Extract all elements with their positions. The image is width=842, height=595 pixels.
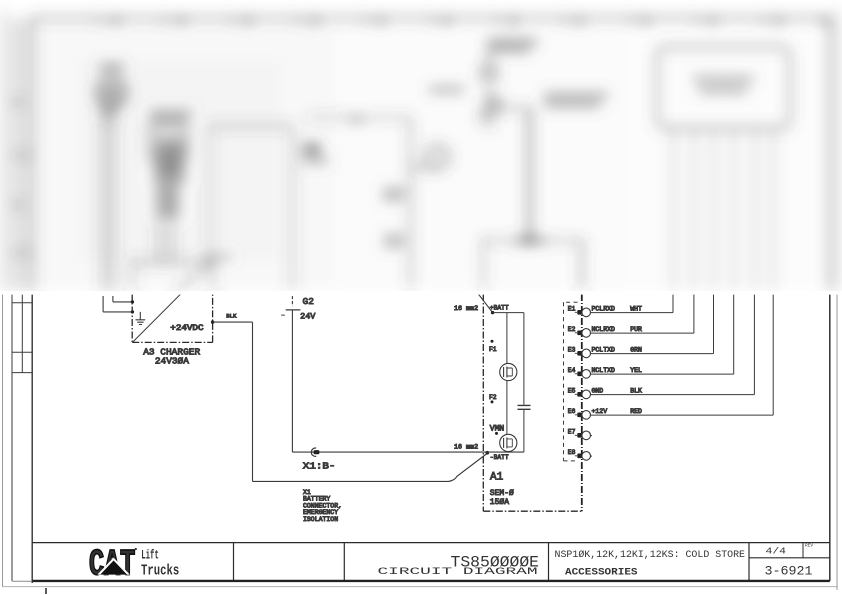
svg-text:NCLRXD: NCLRXD: [592, 326, 616, 333]
A3 charger input wire 1: [113, 296, 132, 302]
svg-text:RED: RED: [630, 408, 642, 415]
X1:B+ connector blob: [308, 145, 320, 154]
preview grey wash: [36, 24, 336, 290]
left margin column: [11, 294, 13, 581]
charger output junction: [211, 320, 214, 323]
rev cell divider: [802, 543, 804, 558]
svg-text:TS85ØØØØE: TS85ØØØØE: [451, 553, 540, 571]
switch blade blob: [479, 96, 501, 119]
node fuse top: [486, 92, 492, 98]
pin E6: [568, 294, 773, 419]
E connector dashed outline: [564, 302, 578, 461]
junction dot: [131, 300, 134, 303]
A1 box top edge (blurred part): [483, 240, 583, 242]
ground symbol: [139, 312, 141, 320]
left margin bottom grey: [12, 580, 32, 582]
svg-text:+12V: +12V: [592, 408, 608, 415]
label blob mid-left lower: [384, 237, 404, 245]
sheet frame top border: [32, 17, 830, 19]
svg-text:Trucks: Trucks: [141, 563, 179, 579]
A3 diagonal (blurred part): [176, 262, 213, 291]
six accessory wires down to E pins: [673, 128, 773, 291]
svg-text:PCLTXD: PCLTXD: [592, 347, 616, 354]
title block top border: [32, 542, 830, 544]
capacitor plates: [518, 405, 531, 409]
frame border right: [829, 294, 831, 581]
svg-text:16 mm2: 16 mm2: [454, 305, 478, 313]
frame border left: [31, 294, 33, 583]
svg-text:BLK: BLK: [226, 313, 237, 320]
shunt / meter circle mid-left: [427, 146, 449, 168]
A1 box left edge (blurred part): [482, 241, 484, 292]
A3 charger box: [132, 294, 212, 342]
A1 box left edge: [482, 294, 484, 511]
svg-text:PCLRXD: PCLRXD: [592, 306, 616, 313]
+BATT feed wire down to A1: [500, 107, 530, 109]
pin E2: [568, 294, 694, 337]
wire battery plus feed horizontal: [308, 117, 411, 119]
outer page edge lines (blurred): [2, 8, 4, 290]
wire battery plus feed vertical: [410, 118, 412, 289]
svg-text:15ØA: 15ØA: [490, 498, 509, 507]
svg-text:+24VDC: +24VDC: [170, 324, 203, 333]
svg-text:24V: 24V: [300, 312, 316, 322]
wires from key switch down to charger inputs: [104, 97, 114, 290]
wire shunt link: [411, 167, 438, 169]
A1 box right edge / E bus: [581, 294, 583, 511]
X1:B- connector: [311, 448, 316, 456]
pin E3: [568, 294, 714, 358]
svg-text:F2: F2: [489, 394, 497, 401]
svg-text:NSP1ØK,12K,12KI,12KS: COLD STO: NSP1ØK,12K,12KI,12KS: COLD STORE: [555, 549, 746, 561]
A3 diagonal: [133, 262, 213, 342]
F1 test point: [491, 340, 494, 343]
label blob mid: [350, 118, 363, 121]
rev/sheet horizontal divider: [749, 557, 830, 559]
left margin ticks: [12, 303, 32, 373]
accessory box top-right: [657, 47, 790, 128]
frame bottom border: [32, 580, 830, 582]
svg-text:GND: GND: [592, 388, 604, 395]
G2 battery plate: [286, 309, 301, 311]
node A1 +BATT junction: [525, 236, 533, 244]
G2 negative wire down and right (B- line): [292, 310, 524, 452]
svg-text:GRN: GRN: [630, 347, 642, 354]
svg-text:ISOLATION: ISOLATION: [303, 516, 338, 523]
svg-text:E3: E3: [568, 346, 576, 353]
A1 box bottom edge: [483, 510, 582, 512]
left margin column (blurred): [12, 18, 22, 290]
svg-text:24V3ØA: 24V3ØA: [155, 356, 189, 367]
frame grid ticks top: [99, 18, 764, 24]
outer page edge left: [2, 294, 4, 587]
G2 battery: boundary stub: [291, 296, 293, 306]
svg-text:Lift: Lift: [141, 547, 159, 562]
title block dividers: [234, 543, 750, 580]
MOSFET Q1: [500, 363, 517, 380]
svg-text:E8: E8: [568, 449, 576, 456]
+BATT internal wire: [493, 312, 524, 314]
svg-text:WHT: WHT: [630, 306, 642, 313]
key switch blob (top-left component): [98, 79, 126, 107]
svg-text:E2: E2: [568, 326, 576, 333]
svg-text:E4: E4: [568, 367, 576, 374]
wire fuse stem: [488, 47, 490, 66]
svg-text:16 mm2: 16 mm2: [454, 444, 478, 452]
svg-text:-BATT: -BATT: [490, 454, 509, 461]
fuse F10 label blob: [487, 42, 538, 50]
A3 charger input wire 2: [103, 296, 132, 312]
pin E5: [568, 294, 755, 399]
junction dot: [131, 310, 134, 313]
A3 charger box top (blurred part): [132, 261, 212, 264]
outer page edge right: [836, 294, 838, 590]
pin E7: [568, 428, 592, 439]
MOSFET Q2: [500, 434, 517, 451]
wire curve into isolation switch: [449, 454, 488, 482]
title texts: [378, 543, 814, 579]
junction dot at -BATT: [486, 451, 490, 455]
label blob right of fuse: [544, 96, 608, 105]
label blob left of fuse: [429, 88, 464, 91]
svg-text:NCLTXD: NCLTXD: [592, 367, 616, 374]
page bottom edge grey line: [3, 586, 839, 588]
svg-text:BLK: BLK: [630, 388, 642, 395]
svg-text:E6: E6: [568, 408, 576, 415]
+BATT switch diagonal: [477, 292, 493, 313]
A1 box right edge (blurred part): [580, 241, 583, 292]
G2 minus sign: [281, 314, 285, 316]
BLK wire from charger: [213, 322, 449, 481]
svg-text:F1: F1: [489, 346, 497, 353]
pin E1: [568, 294, 673, 317]
svg-text:E5: E5: [568, 387, 576, 394]
pin E8: [568, 449, 592, 460]
wire from A3 top up and over to G2 feed: [209, 126, 211, 262]
svg-text:3-6921: 3-6921: [765, 563, 813, 578]
A1 internal wire right with capacitor gap: [523, 313, 525, 453]
svg-text:E1: E1: [568, 305, 576, 312]
pin E4: [568, 294, 734, 378]
svg-text:ACCESSORIES: ACCESSORIES: [565, 568, 638, 579]
svg-text:SEM-Ø: SEM-Ø: [490, 489, 514, 498]
svg-text:X1:B-: X1:B-: [303, 461, 336, 471]
label blob mid-left upper: [383, 191, 405, 199]
svg-text:E7: E7: [568, 428, 576, 435]
fold tick bottom-left: [45, 588, 47, 594]
svg-text:4/4: 4/4: [766, 547, 787, 557]
node fuse bottom: [497, 105, 503, 111]
CAT logo: [89, 544, 179, 586]
svg-text:A1: A1: [490, 472, 504, 484]
component S1 blob above charger: [150, 113, 192, 120]
svg-text:G2: G2: [303, 296, 315, 307]
svg-text:+BATT: +BATT: [490, 305, 509, 312]
frame grid numbers top (blurred blobs): [112, 19, 827, 23]
svg-text:REV: REV: [805, 543, 813, 549]
fuse F10 holder circle: [482, 66, 497, 81]
svg-text:PUR: PUR: [630, 326, 642, 333]
svg-text:YEL: YEL: [630, 367, 642, 374]
A1 internal wire left: [506, 313, 508, 453]
